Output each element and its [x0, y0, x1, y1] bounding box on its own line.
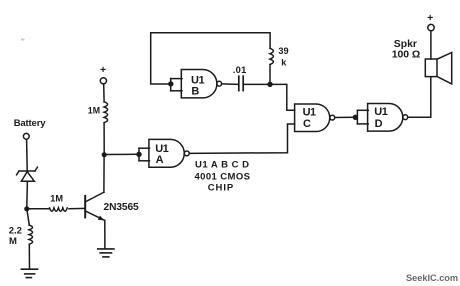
svg-text:1M: 1M	[88, 106, 100, 116]
svg-text:k: k	[281, 57, 287, 67]
svg-text:C: C	[303, 118, 311, 130]
svg-text:2N3565: 2N3565	[104, 202, 140, 213]
svg-text:B: B	[191, 86, 199, 98]
svg-text:2.2: 2.2	[9, 226, 22, 237]
svg-text:100 Ω: 100 Ω	[392, 49, 421, 60]
svg-text:U1 A B C D: U1 A B C D	[195, 160, 249, 171]
svg-text:CHIP: CHIP	[208, 182, 234, 193]
svg-text:.01: .01	[233, 65, 247, 75]
svg-text:4001 CMOS: 4001 CMOS	[195, 171, 251, 182]
svg-text:SeekIC.com: SeekIC.com	[406, 273, 458, 283]
svg-text:1M: 1M	[50, 194, 63, 204]
svg-text:U1: U1	[303, 106, 316, 118]
svg-text:M: M	[9, 236, 17, 247]
svg-text:D: D	[375, 118, 383, 130]
svg-text:Battery: Battery	[14, 118, 47, 129]
svg-text:Spkr: Spkr	[394, 39, 417, 50]
svg-text:U1: U1	[374, 106, 387, 118]
svg-text:+: +	[100, 64, 106, 76]
svg-text:39: 39	[278, 46, 288, 56]
svg-text:+: +	[427, 12, 433, 24]
svg-text:U1: U1	[191, 74, 204, 86]
svg-text:A: A	[156, 154, 164, 166]
